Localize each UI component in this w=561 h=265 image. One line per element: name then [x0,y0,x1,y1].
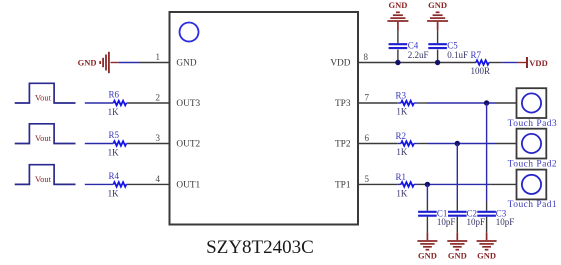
svg-text:GND: GND [448,250,467,260]
svg-text:SZY8T2403C: SZY8T2403C [206,237,314,258]
svg-text:GND: GND [418,250,437,260]
svg-text:2: 2 [156,93,161,103]
svg-text:VDD: VDD [529,58,547,68]
svg-text:R6: R6 [108,90,119,100]
svg-text:1K: 1K [396,188,408,198]
svg-text:1K: 1K [108,107,120,117]
svg-text:R3: R3 [396,91,407,101]
svg-text:10pF: 10pF [467,217,486,227]
svg-text:8: 8 [364,52,369,62]
svg-text:R1: R1 [396,172,407,182]
svg-text:VDD: VDD [330,59,350,69]
svg-text:100R: 100R [471,66,491,76]
svg-text:Vout: Vout [35,133,52,143]
svg-text:1K: 1K [396,107,408,117]
svg-text:Touch Pad2: Touch Pad2 [508,159,557,169]
svg-text:10pF: 10pF [437,217,456,227]
svg-text:TP2: TP2 [335,140,351,150]
svg-text:GND: GND [388,0,407,10]
svg-text:OUT2: OUT2 [176,140,200,150]
svg-text:7: 7 [365,93,370,103]
svg-text:OUT1: OUT1 [176,181,200,191]
svg-text:6: 6 [365,133,370,143]
svg-text:GND: GND [78,58,97,68]
svg-text:Touch Pad3: Touch Pad3 [508,119,557,129]
svg-text:Vout: Vout [35,92,52,102]
svg-text:GND: GND [477,250,496,260]
svg-text:R4: R4 [108,171,119,181]
svg-text:4: 4 [156,174,161,184]
svg-text:10pF: 10pF [496,217,515,227]
svg-text:R5: R5 [108,130,119,140]
svg-text:2.2uF: 2.2uF [408,50,429,60]
svg-text:R7: R7 [471,50,482,60]
svg-text:1K: 1K [108,148,120,158]
svg-text:GND: GND [176,59,196,69]
svg-text:5: 5 [365,174,370,184]
svg-text:TP3: TP3 [335,99,351,109]
svg-text:3: 3 [156,133,161,143]
svg-text:GND: GND [428,0,447,10]
svg-text:0.1uF: 0.1uF [447,50,468,60]
svg-text:1K: 1K [396,147,408,157]
svg-text:OUT3: OUT3 [176,99,200,109]
svg-text:Vout: Vout [35,174,52,184]
svg-text:1: 1 [156,52,161,62]
svg-text:Touch Pad1: Touch Pad1 [508,200,557,210]
svg-text:R2: R2 [396,131,407,141]
svg-text:1K: 1K [108,188,120,198]
svg-text:TP1: TP1 [335,181,351,191]
